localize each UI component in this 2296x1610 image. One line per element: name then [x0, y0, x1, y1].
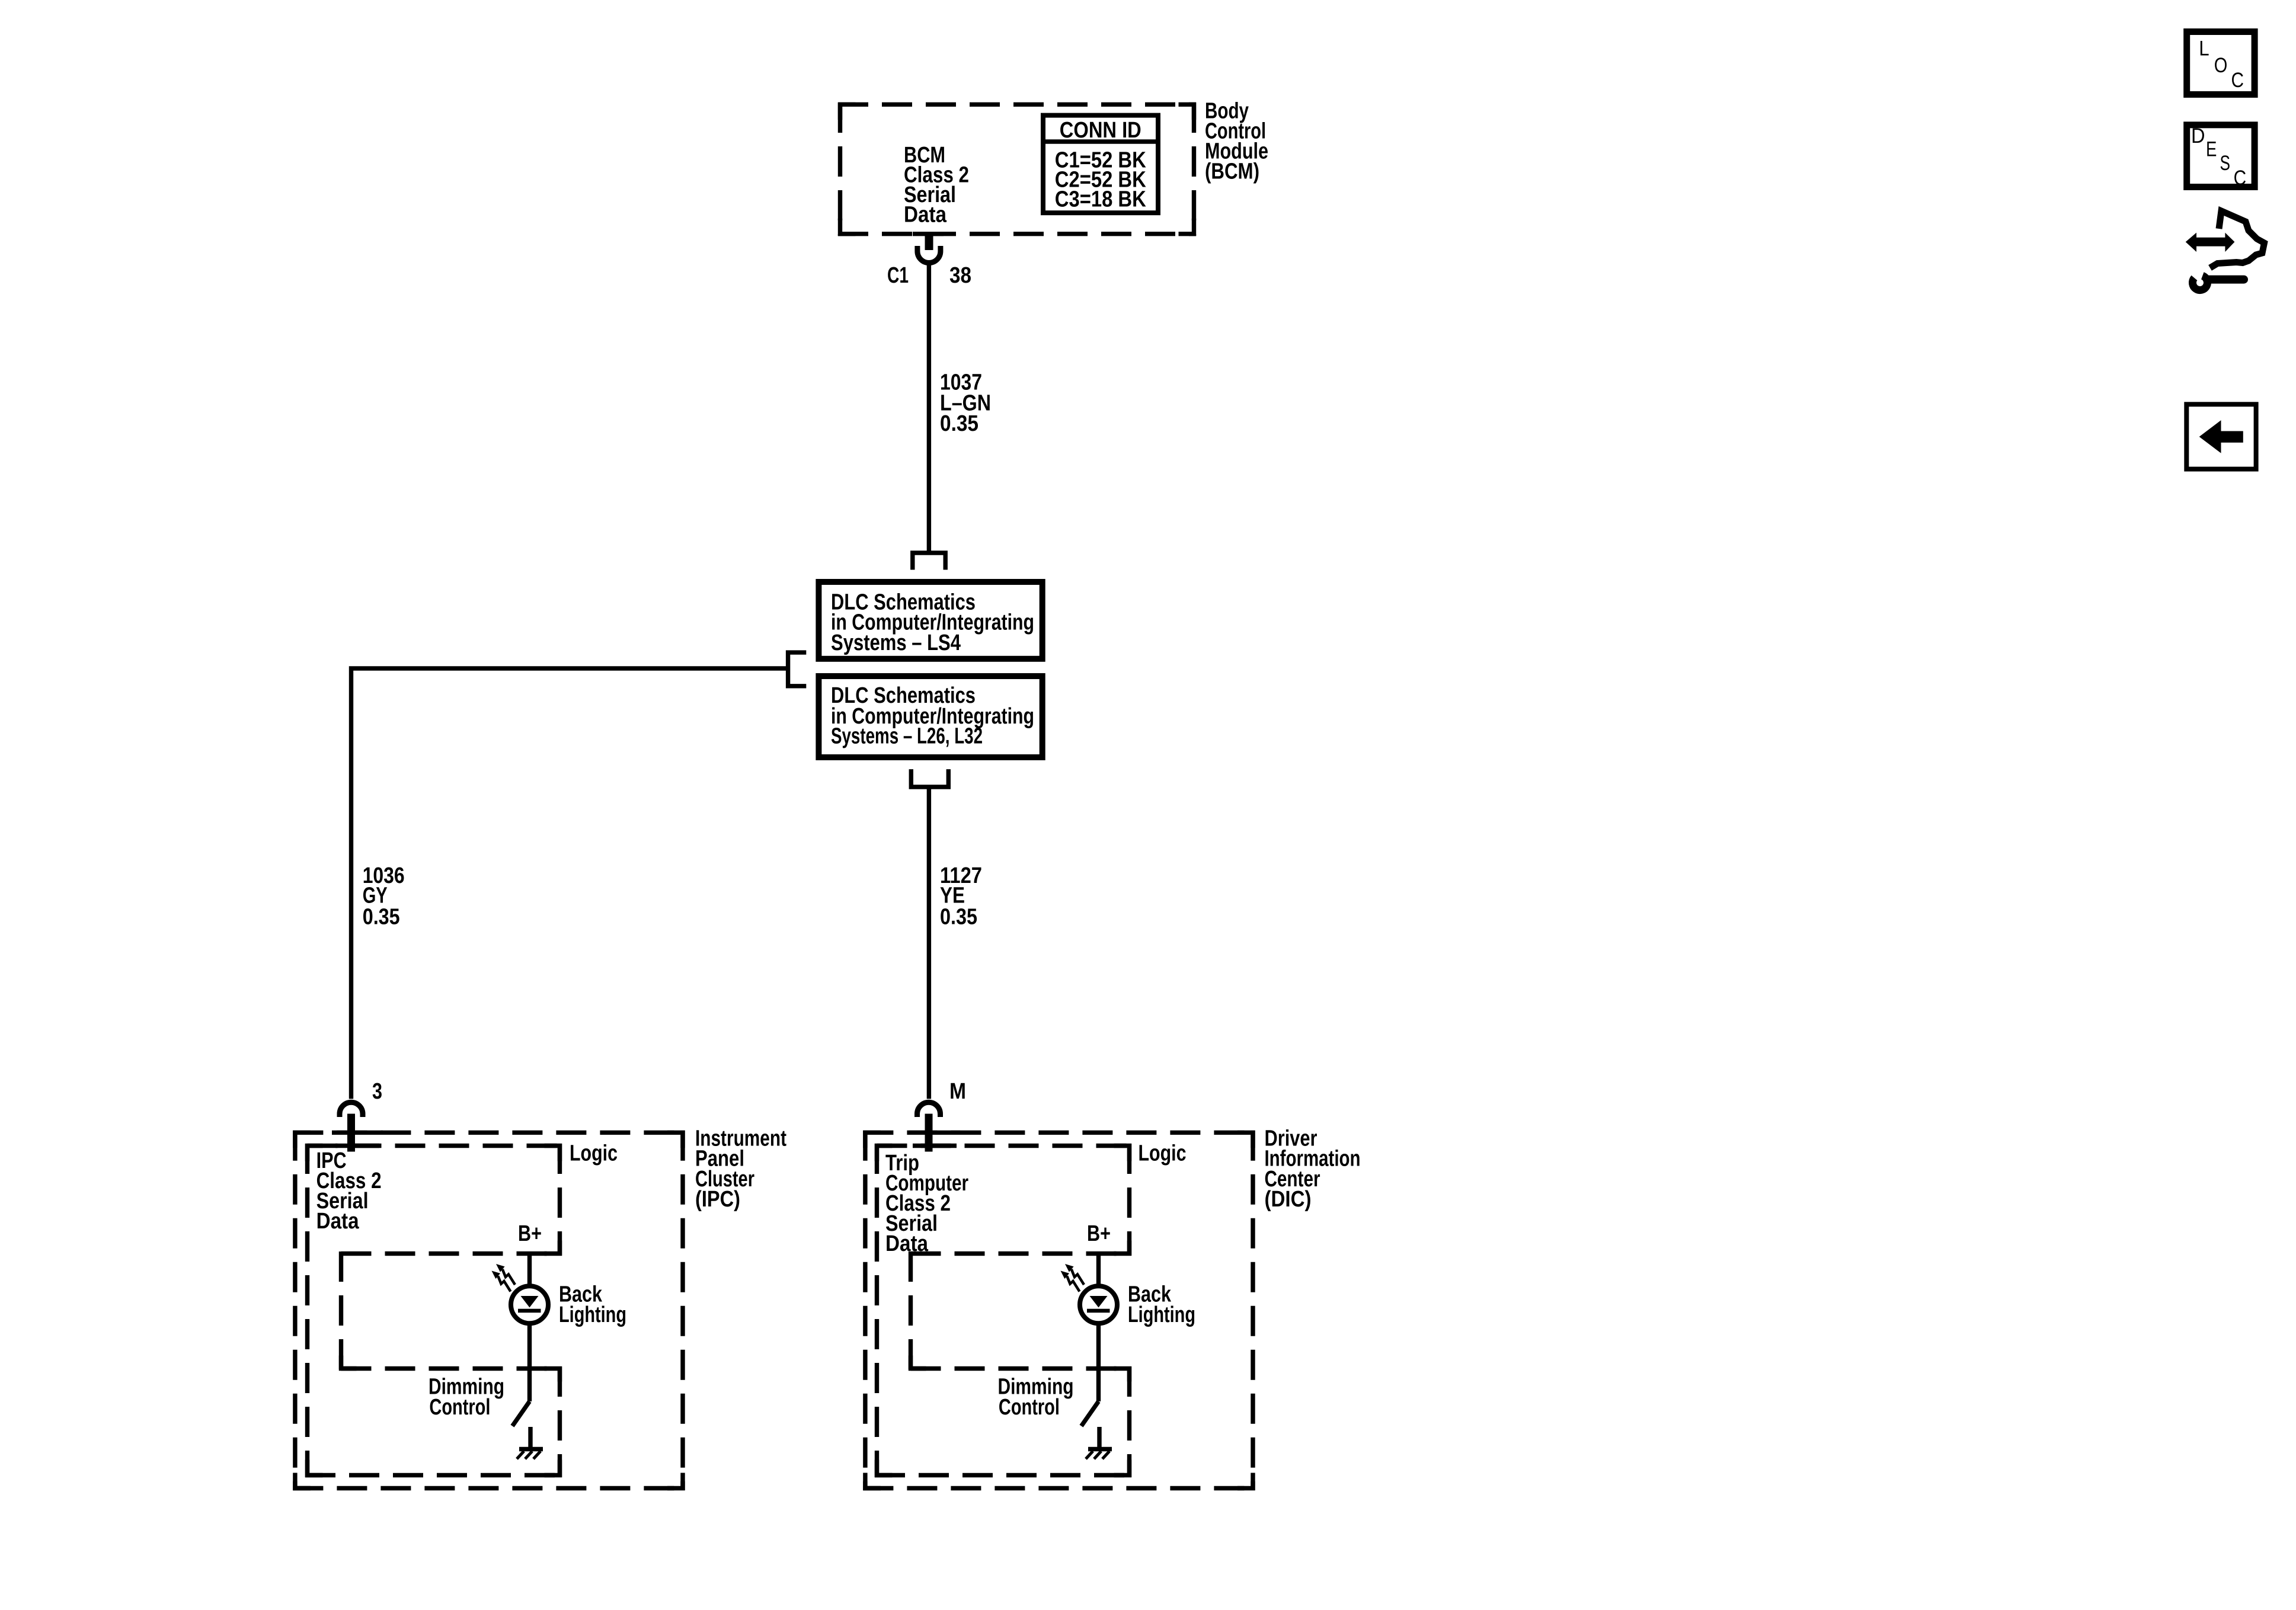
switch S1 dimming control blade (IPC): [513, 1401, 530, 1426]
wire LED to dimming switch (IPC): [527, 1323, 532, 1401]
svg-text:Data: Data: [904, 203, 947, 228]
IPC pin stub: [347, 1114, 355, 1152]
wire 1127 DLC to DIC: [927, 787, 931, 1099]
DIC inner logic box: [875, 1144, 1131, 1477]
DIC logic box top edge dash behind pin: [913, 1144, 957, 1148]
connector C1 female terminal arc: [917, 246, 941, 263]
DIC outer dashed box: [863, 1131, 1255, 1490]
wire 1036 horizontal+vertical: [351, 668, 788, 1099]
svg-text:B+: B+: [518, 1221, 542, 1246]
DIC LED light arrows: [1061, 1264, 1085, 1292]
svg-text:CONN ID: CONN ID: [1060, 118, 1141, 143]
left bracket between DLC boxes: [788, 652, 807, 686]
wire label 1036 GY 0.35: [363, 863, 405, 930]
svg-text:L: L: [2199, 37, 2209, 60]
wire 1037 BCM to DLC: [927, 263, 931, 553]
DIC top edge dash behind pin: [909, 1131, 960, 1135]
svg-text:38: 38: [949, 263, 971, 288]
IPC inner logic box: [305, 1144, 562, 1477]
LOC icon box: [2187, 32, 2255, 95]
off-page bracket below DLC box 2: [911, 769, 948, 787]
svg-text:Lighting: Lighting: [559, 1302, 626, 1327]
svg-text:3: 3: [372, 1079, 382, 1104]
svg-text:D: D: [2191, 124, 2205, 148]
LED D1 anode triangle: [521, 1296, 539, 1308]
svg-text:B+: B+: [1087, 1221, 1111, 1246]
IPC logic box top edge dash behind pin: [335, 1144, 379, 1148]
svg-text:M: M: [949, 1079, 966, 1104]
BCM pin 38 stub: [925, 236, 933, 250]
svg-text:Control: Control: [999, 1395, 1060, 1420]
svg-text:Logic: Logic: [1139, 1141, 1187, 1166]
DESC icon box: [2187, 124, 2255, 190]
svg-text:C: C: [2231, 69, 2244, 92]
svg-text:C1: C1: [887, 263, 909, 288]
svg-text:Systems – L26, L32: Systems – L26, L32: [831, 724, 983, 749]
DIC LED sub-box dividers: [911, 1251, 1130, 1371]
LED D1 cathode bar: [518, 1309, 541, 1313]
IPC LED light arrows: [492, 1264, 516, 1292]
ground stub (IPC): [528, 1427, 532, 1449]
svg-text:S: S: [2220, 152, 2231, 175]
svg-text:(IPC): (IPC): [695, 1187, 740, 1212]
svg-text:Control: Control: [429, 1395, 490, 1420]
svg-text:O: O: [2214, 54, 2228, 77]
wire label 1127 YE 0.35: [940, 863, 982, 930]
connector pin 3 female terminal arc (IPC): [340, 1102, 363, 1117]
back arrow icon: [2186, 404, 2256, 469]
Driver Information Center (DIC) label: [1265, 1126, 1361, 1212]
CONN ID table: [1041, 116, 1160, 213]
BCM module text: [904, 143, 969, 228]
svg-text:Data: Data: [316, 1209, 360, 1234]
BCM module dashed box: [838, 103, 1196, 236]
svg-text:Lighting: Lighting: [1128, 1302, 1195, 1327]
wrench / vehicle icon: [2186, 211, 2265, 290]
ground (IPC): [519, 1447, 543, 1451]
svg-text:Logic: Logic: [570, 1141, 618, 1166]
corner dash marks for dashed boxes: [295, 104, 1253, 1488]
svg-text:(BCM): (BCM): [1205, 159, 1259, 184]
svg-text:0.35: 0.35: [363, 905, 400, 930]
wire label 1037 L-GN 0.35: [940, 370, 991, 437]
connector pin M female terminal arc (DIC): [917, 1102, 941, 1117]
svg-text:Systems – LS4: Systems – LS4: [831, 630, 961, 655]
IPC top edge dash behind pin: [332, 1131, 383, 1135]
svg-text:Data: Data: [885, 1231, 929, 1256]
Body Control Module (BCM) label: [1205, 99, 1268, 184]
BCM bottom edge dash behind pin: [913, 232, 944, 236]
DIC pin stub: [925, 1114, 933, 1152]
Instrument Panel Cluster (IPC) label: [695, 1126, 786, 1212]
DLC schematics box 1: [818, 582, 1042, 659]
svg-text:E: E: [2206, 138, 2217, 161]
IPC LED sub-box dividers: [341, 1251, 560, 1371]
svg-text:(DIC): (DIC): [1265, 1187, 1312, 1212]
svg-text:0.35: 0.35: [940, 905, 977, 930]
DIC module text: [885, 1141, 1195, 1420]
off-page bracket above DLC box 1: [913, 553, 945, 570]
wire B+ to LED (IPC): [527, 1251, 532, 1287]
LED D1 back lighting (IPC) circle: [511, 1286, 548, 1323]
svg-text:C: C: [2234, 167, 2247, 190]
DIC backlight LED circuit: [1080, 1251, 1117, 1459]
DLC schematics box 2: [818, 676, 1042, 757]
svg-text:C3=18 BK: C3=18 BK: [1055, 187, 1146, 212]
IPC module text: [316, 1141, 626, 1420]
svg-text:0.35: 0.35: [940, 411, 978, 436]
IPC outer dashed box: [293, 1131, 685, 1490]
